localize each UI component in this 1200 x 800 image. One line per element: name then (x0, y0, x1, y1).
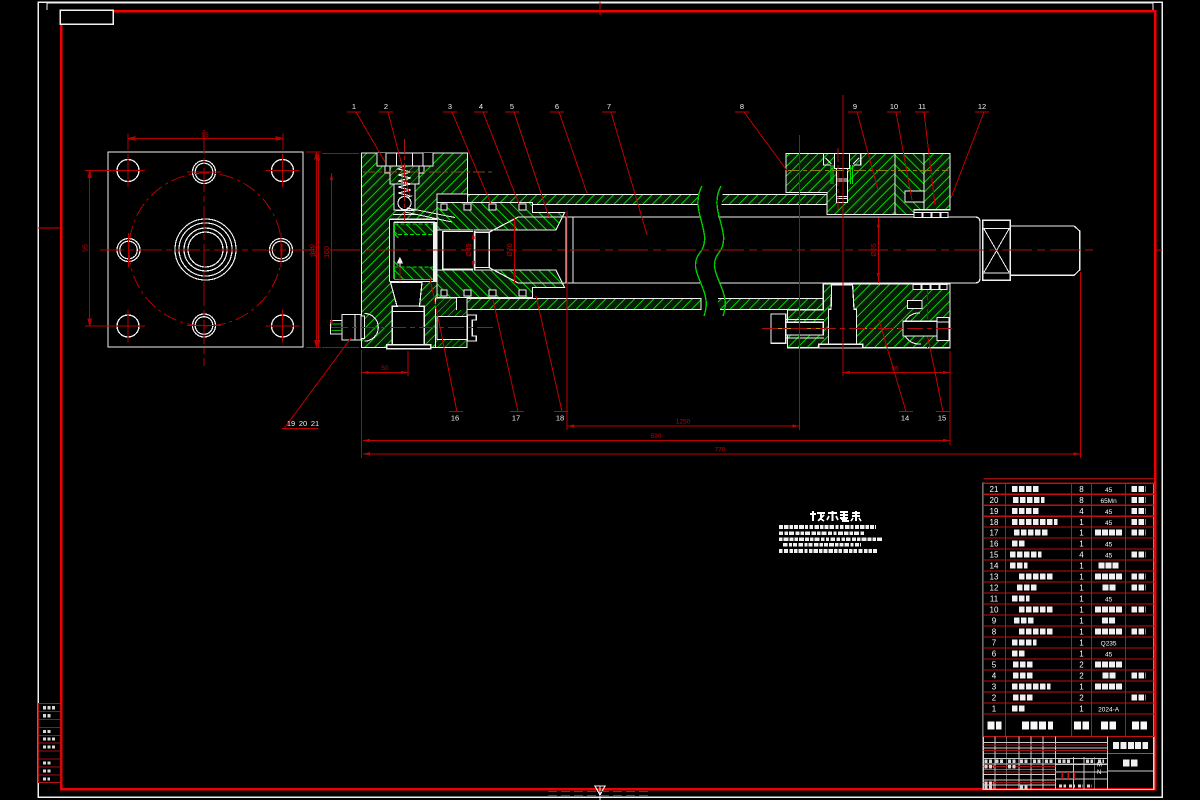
svg-text:45: 45 (1105, 652, 1113, 659)
svg-text:1: 1 (1079, 595, 1084, 604)
leader 10 (887, 112, 912, 200)
oil passage axis left cap (363, 171, 492, 173)
main centerline (330, 249, 1097, 251)
dim 86 right cap (842, 95, 844, 376)
svg-text:45: 45 (1105, 597, 1113, 604)
svg-text:18: 18 (990, 518, 999, 527)
svg-text:7: 7 (992, 639, 997, 648)
svg-text:Ø70: Ø70 (507, 243, 514, 256)
right cap right bolt shaft (903, 321, 937, 336)
BOM material values (1098, 487, 1120, 714)
dim rod diameter phi70 (514, 217, 516, 283)
piston top seal band (395, 224, 435, 235)
right cap left bolt head (771, 314, 786, 343)
rod end cylinder (1010, 226, 1079, 275)
bottom port boss left (391, 282, 425, 344)
retainer notch (905, 191, 924, 202)
oil passage axis right cap (788, 170, 948, 172)
svg-text:15: 15 (990, 551, 999, 560)
svg-text:Ø45: Ø45 (466, 243, 473, 256)
bolt boss arc (365, 314, 379, 342)
break gap mask (695, 186, 723, 316)
gland retainer (reverse hatch) (895, 153, 924, 214)
leader 16 (430, 278, 463, 412)
svg-text:5: 5 (510, 102, 514, 111)
flange plate square (108, 152, 303, 347)
svg-text:160: 160 (324, 246, 331, 258)
piston spacer (475, 232, 490, 267)
left revision strip (39, 704, 62, 783)
cylinder tube bottom band left (437, 299, 701, 310)
dim 50 left cap width (361, 350, 363, 458)
svg-text:Q235: Q235 (1101, 641, 1117, 648)
leader 3 (443, 112, 491, 204)
svg-text:4: 4 (479, 102, 483, 111)
top-left white box (60, 10, 113, 24)
svg-text:1: 1 (1079, 562, 1084, 571)
valve spring (398, 166, 411, 199)
svg-text:20: 20 (990, 496, 999, 505)
leader 7 (602, 112, 647, 235)
right cap top fitting recess (824, 154, 861, 165)
svg-text:45: 45 (1105, 553, 1113, 560)
rod seal stack top (914, 213, 948, 218)
center bore concentric circles (175, 219, 236, 280)
title block grid (983, 736, 1154, 789)
gland seal squares bottom (441, 290, 526, 296)
leader 4 (474, 112, 519, 204)
bottom boss foot (819, 344, 863, 348)
piston cushion sleeve (443, 231, 475, 269)
port passage through band (457, 298, 468, 310)
drawing name (1113, 742, 1148, 749)
BOM outer border (983, 483, 1154, 789)
corner bolt holes (117, 160, 294, 338)
svg-text:1: 1 (1079, 584, 1084, 593)
outer white border (47, 3, 1153, 10)
leader 17 (493, 300, 524, 412)
svg-text:1: 1 (1079, 650, 1084, 659)
guide gland bottom block (437, 270, 565, 297)
svg-text:3: 3 (992, 683, 997, 692)
bottom port block (436, 298, 468, 348)
axis lines (330, 139, 1097, 329)
cushion rod line (399, 267, 401, 308)
svg-text:1: 1 (1079, 540, 1084, 549)
piston bottom seal band (395, 267, 435, 280)
svg-text:2: 2 (1079, 694, 1084, 703)
technical requirements (779, 511, 882, 551)
guide gland top block (437, 202, 565, 230)
rod shoulder (566, 217, 573, 283)
valve chamber (394, 184, 415, 210)
valve seat (393, 211, 417, 215)
svg-text:16: 16 (990, 540, 999, 549)
leaders and labels (282, 102, 989, 429)
svg-text:11: 11 (918, 102, 926, 111)
right cap right bolt notch (907, 301, 922, 309)
svg-text:1: 1 (1079, 529, 1084, 538)
svg-text:21: 21 (311, 419, 319, 428)
dim stroke 1250 (566, 211, 568, 430)
mid-side threaded holes (double circle) (117, 161, 293, 338)
frame zone ticks (38, 2, 1162, 250)
leader group 19-21 (282, 338, 351, 429)
svg-text:1: 1 (1079, 518, 1084, 527)
break S-curve right (714, 186, 725, 316)
svg-text:9: 9 (992, 617, 997, 626)
svg-text:7: 7 (607, 102, 611, 111)
right cap top block (786, 153, 950, 214)
svg-text:15: 15 (938, 414, 946, 423)
bottom port fitting hole (437, 317, 467, 340)
leader 9 (848, 112, 878, 190)
svg-text:190: 190 (311, 246, 318, 258)
svg-text:12: 12 (978, 102, 986, 111)
svg-text:45: 45 (1105, 487, 1113, 494)
svg-text:8: 8 (740, 102, 744, 111)
leader 1 (347, 112, 385, 162)
cushion arrow (397, 258, 402, 268)
valve ball (398, 197, 411, 210)
svg-text:8: 8 (1079, 496, 1084, 505)
gland seal squares top (441, 204, 526, 210)
valve cross passage (405, 208, 455, 222)
leader 8 (735, 112, 788, 172)
flange front view (83, 130, 322, 366)
svg-text:95: 95 (83, 244, 90, 252)
svg-text:4: 4 (992, 672, 997, 681)
BOM table (983, 479, 1154, 790)
svg-text:13: 13 (990, 573, 999, 582)
leader 14 (879, 320, 913, 412)
rod cone (489, 217, 518, 283)
dim rod diameter right phi55 (877, 218, 879, 284)
dim right flange height (306, 152, 321, 348)
svg-text:Ø55: Ø55 (871, 243, 878, 256)
svg-text:M: M (1097, 763, 1102, 769)
cylinder tube top band left (468, 195, 702, 205)
svg-text:10: 10 (990, 606, 999, 615)
svg-text:65Mn: 65Mn (1100, 498, 1117, 505)
title block letters (1097, 763, 1102, 777)
BOM header (988, 722, 1148, 730)
svg-text:2024-A: 2024-A (1098, 707, 1120, 714)
leader 18 (536, 296, 568, 412)
dim rod diameter phi45 (472, 229, 474, 271)
frame zone ticks (38, 2, 1162, 250)
right cap right bolt head (937, 318, 949, 341)
svg-text:9: 9 (853, 102, 857, 111)
svg-text:18: 18 (556, 414, 564, 423)
svg-text:21: 21 (990, 485, 999, 494)
svg-text:2: 2 (384, 102, 388, 111)
BOM chinese name blobs (1010, 489, 1146, 709)
bottom port fitting (467, 315, 476, 341)
leader 11 (915, 112, 935, 205)
cap left bolt washer (361, 316, 365, 339)
cylinder tube top band right (711, 195, 827, 205)
svg-text:19: 19 (990, 507, 999, 516)
svg-text:1: 1 (1079, 705, 1084, 714)
leader 2 (379, 112, 410, 196)
svg-text:95: 95 (201, 132, 209, 139)
leader 12 (951, 112, 989, 198)
left bolt hole walls (786, 320, 824, 339)
leader 5 (505, 112, 549, 217)
right top fitting centerline (837, 148, 839, 212)
chamber corner thread marks (395, 224, 400, 277)
right cap plug stem (837, 169, 848, 203)
check valve plug (386, 153, 423, 166)
svg-text:14: 14 (990, 562, 999, 571)
section view (331, 153, 1080, 349)
dim 590 (363, 439, 950, 441)
svg-text:2: 2 (1079, 672, 1084, 681)
break S-curve left (695, 186, 706, 316)
svg-text:17: 17 (990, 529, 999, 538)
check valve recess (377, 153, 433, 173)
svg-text:N: N (1097, 770, 1101, 776)
body text lines (blob simulation) (779, 527, 882, 551)
right cap plug head (835, 154, 850, 169)
svg-text:8: 8 (1079, 485, 1084, 494)
svg-text:50: 50 (381, 365, 389, 372)
svg-text:1: 1 (1079, 573, 1084, 582)
svg-text:8: 8 (992, 628, 997, 637)
dimensions (311, 95, 1080, 458)
leader 15 (928, 338, 950, 412)
rod seal stack bottom (913, 284, 947, 289)
BOM numbers (990, 485, 1085, 714)
left bolt centerline (332, 326, 497, 328)
check valve threaded body (390, 166, 419, 184)
svg-text:1: 1 (992, 705, 997, 714)
right cap bottom block (788, 284, 951, 348)
piston right face (433, 222, 437, 281)
left revision strip (39, 704, 62, 783)
rod bottom line (518, 282, 950, 284)
BOM top red bar (983, 478, 1154, 480)
wrench flat box (983, 220, 1011, 280)
svg-text:1: 1 (1079, 683, 1084, 692)
right bolts centerline (762, 328, 952, 330)
svg-text:6: 6 (555, 102, 559, 111)
svg-text:1250: 1250 (676, 419, 691, 426)
red centerlines (100, 130, 311, 366)
rod top line (518, 216, 950, 218)
cylinder tube bottom band right (711, 299, 823, 310)
svg-text:4: 4 (1079, 551, 1084, 560)
right bolt vertical centerline (927, 290, 929, 348)
svg-text:45: 45 (1105, 542, 1113, 549)
svg-text:2: 2 (992, 694, 997, 703)
svg-text:3: 3 (448, 102, 452, 111)
cap left bolt head (342, 315, 361, 341)
svg-text:1: 1 (352, 102, 356, 111)
svg-text:12: 12 (990, 584, 999, 593)
dim flange thickness verticals (318, 154, 320, 348)
svg-text:1: 1 (1079, 639, 1084, 648)
cap left bolt stud (331, 321, 343, 335)
svg-text:10: 10 (890, 102, 898, 111)
BOM grid lines (983, 483, 1154, 736)
title block red rows (983, 745, 1107, 782)
svg-text:45: 45 (1105, 509, 1113, 516)
left cap body (362, 153, 468, 348)
dim 770 overall (1079, 272, 1081, 458)
leader 6 (550, 112, 587, 193)
bottom centering marks (595, 786, 605, 800)
thread marks (831, 165, 852, 184)
svg-text:45: 45 (1105, 520, 1113, 527)
bottom boss port (829, 285, 857, 345)
title red marks (1062, 772, 1074, 779)
svg-text:11: 11 (990, 595, 999, 604)
right cap left bolt shaft (786, 322, 824, 335)
valve centerline (403, 139, 405, 222)
svg-text:4: 4 (1079, 507, 1084, 516)
svg-text:1: 1 (1079, 617, 1084, 626)
svg-text:17: 17 (512, 414, 520, 423)
red bolt circle (dashed) (129, 173, 282, 326)
title block (983, 736, 1154, 789)
svg-text:19: 19 (287, 419, 295, 428)
svg-text:1: 1 (1079, 606, 1084, 615)
cap inner chamber (389, 219, 437, 281)
dim left hole spacing (85, 171, 122, 327)
title glyphs (810, 511, 861, 521)
title block small texts (985, 761, 1105, 787)
svg-text:5: 5 (992, 661, 997, 670)
svg-text:20: 20 (299, 419, 307, 428)
svg-text:2: 2 (1079, 661, 1084, 670)
dim top bolt spacing (128, 134, 283, 151)
bottom port boss foot (387, 345, 431, 349)
rod end chamfer (950, 217, 980, 283)
svg-text:16: 16 (451, 414, 459, 423)
svg-text:590: 590 (651, 433, 662, 440)
svg-text:1: 1 (1079, 628, 1084, 637)
svg-text:14: 14 (901, 414, 909, 423)
svg-text:770: 770 (715, 446, 726, 453)
right cap right bolt hole arc (903, 313, 921, 344)
svg-text:6: 6 (992, 650, 997, 659)
